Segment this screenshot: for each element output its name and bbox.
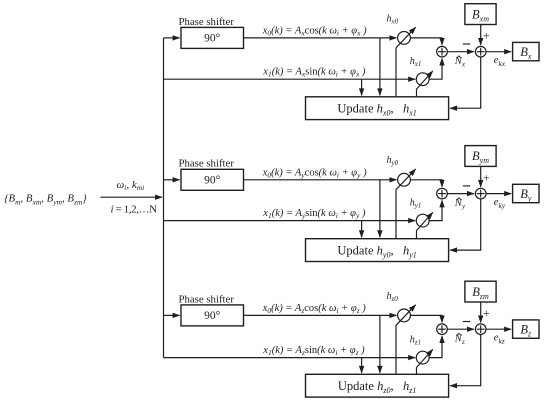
svg-text:+: +	[483, 28, 490, 42]
svg-text:x1(k) = Aysin(k ωi + φy ): x1(k) = Aysin(k ωi + φy )	[262, 208, 366, 220]
svg-text:Update hz0, hz1: Update hz0, hz1	[338, 379, 416, 395]
svg-text:+: +	[483, 170, 490, 184]
svg-text:x0(k) = Axcos(k ωi + φx ): x0(k) = Axcos(k ωi + φx )	[262, 25, 367, 37]
svg-text:Update hx0, hx1: Update hx0, hx1	[337, 101, 416, 117]
svg-text:90°: 90°	[204, 33, 221, 45]
svg-text:Phase shifter: Phase shifter	[178, 158, 234, 170]
svg-text:x0(k) = Aycos(k ωi + φy ): x0(k) = Aycos(k ωi + φy )	[262, 167, 367, 179]
svg-text:90°: 90°	[204, 175, 221, 187]
svg-text:z: z	[461, 338, 465, 346]
svg-text:90°: 90°	[204, 310, 221, 322]
svg-text:Update hy0, hy1: Update hy0, hy1	[337, 243, 416, 259]
svg-text:x1(k) = Axsin(k ωi + φx ): x1(k) = Axsin(k ωi + φx )	[262, 67, 366, 79]
svg-text:+: +	[483, 306, 490, 320]
svg-text:Phase shifter: Phase shifter	[178, 293, 234, 305]
svg-text:x0(k) = Azcos(k ωi + φz ): x0(k) = Azcos(k ωi + φz )	[262, 303, 367, 315]
svg-text:x1(k) = Azsin(k ωi + φz ): x1(k) = Azsin(k ωi + φz )	[262, 345, 365, 357]
svg-text:Phase shifter: Phase shifter	[178, 16, 234, 28]
svg-text:i = 1,2,…N: i = 1,2,…N	[111, 204, 158, 216]
